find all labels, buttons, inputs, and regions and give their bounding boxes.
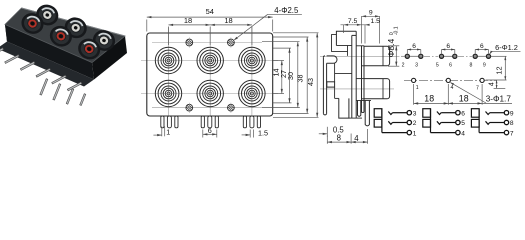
svg-text:18: 18 [224, 16, 232, 25]
pcb top row holes pins 2 3 5 6 8 9 [405, 54, 409, 58]
dim 54 top [146, 20, 148, 32]
dim 18 18 top [168, 27, 170, 46]
lug row2 [327, 82, 335, 87]
svg-text:8: 8 [337, 134, 341, 143]
svg-text:6: 6 [449, 63, 452, 69]
terminal pin 7 [504, 130, 514, 137]
centerlines front view [168, 28, 170, 123]
4 mounting holes with hatch [186, 39, 193, 46]
svg-text:38: 38 [296, 75, 305, 83]
svg-text:6: 6 [208, 126, 212, 135]
wire switch to pin 9 [490, 112, 505, 114]
svg-text:4: 4 [488, 82, 495, 86]
dim 1.5 pin group3 [249, 130, 251, 138]
dia 8.4 dim [388, 45, 399, 47]
svg-text:43: 43 [306, 78, 315, 86]
right nested vertical dims 14 27 30 38 43 [273, 60, 284, 62]
dims 18 18 bottom with 3-phi1.7 [413, 84, 415, 105]
barrel row2 [364, 79, 390, 99]
side pins [358, 101, 361, 117]
bottom foot [339, 98, 349, 118]
svg-text:5: 5 [461, 120, 465, 127]
svg-text:1: 1 [416, 85, 419, 91]
svg-text:6: 6 [446, 43, 450, 50]
pins below front view [161, 116, 164, 128]
switch contact S9 (tip of J3) [486, 112, 490, 115]
svg-text:9: 9 [483, 63, 486, 69]
step between barrels [335, 72, 352, 74]
svg-text:4: 4 [461, 130, 465, 137]
svg-text:1.5: 1.5 [370, 18, 380, 25]
svg-text:4: 4 [450, 85, 453, 91]
terminal pin 8 [504, 120, 514, 127]
terminal pin 1 [407, 130, 417, 137]
side view body outline [336, 31, 356, 45]
svg-text:1: 1 [413, 130, 417, 137]
side dim 0.5 [326, 127, 328, 137]
svg-text:3-Φ1.7: 3-Φ1.7 [486, 95, 512, 104]
svg-text:6: 6 [412, 43, 416, 50]
svg-text:9: 9 [510, 110, 514, 117]
face plate [351, 35, 353, 118]
photo of 6-way RCA jack block [0, 1, 127, 105]
svg-text:7: 7 [476, 85, 479, 91]
svg-text:30: 30 [286, 72, 295, 80]
svg-text:18: 18 [459, 94, 469, 104]
jack J1 body symbol [374, 109, 382, 133]
svg-text:18: 18 [184, 16, 192, 25]
svg-text:-0.1: -0.1 [394, 26, 400, 35]
svg-text:54: 54 [206, 7, 214, 16]
wire switch to pin 2 [393, 122, 408, 124]
terminal pin 6 [456, 110, 466, 117]
pcb layout centerlines [401, 55, 405, 57]
svg-text:18: 18 [424, 94, 434, 104]
switch contact S2 (ring of J1) [388, 121, 392, 124]
svg-text:9: 9 [369, 10, 373, 17]
svg-text:6: 6 [480, 43, 484, 50]
terminal pin 2 [407, 120, 417, 127]
svg-text:2: 2 [413, 120, 417, 127]
svg-text:8: 8 [470, 63, 473, 69]
side bottom dims 8 and 4 [326, 136, 328, 144]
wire switch to pin 3 [393, 112, 408, 114]
svg-text:4-Φ2.5: 4-Φ2.5 [274, 6, 299, 15]
svg-text:7.5: 7.5 [348, 18, 358, 25]
terminal pin 4 [456, 130, 466, 137]
svg-text:Φ8.4: Φ8.4 [386, 38, 396, 57]
svg-text:7: 7 [510, 130, 514, 137]
dims 6 6 6 top [406, 50, 408, 54]
leader 3-phi1.7 to hole 4 [451, 83, 487, 103]
wire jack J1 ground to pin 1 [382, 132, 407, 134]
switch contact S3 (tip of J1) [388, 112, 392, 115]
front body rectangle [147, 33, 273, 116]
jack J3 body symbol [471, 109, 479, 133]
wire switch to pin 5 [441, 122, 456, 124]
svg-text:8: 8 [510, 120, 514, 127]
dim 6 pin group2 [202, 130, 204, 138]
svg-text:1.5: 1.5 [258, 128, 268, 137]
svg-text:5: 5 [436, 63, 439, 69]
rear plate [361, 46, 363, 113]
barrel row1 [364, 46, 390, 66]
terminal pin 9 [504, 110, 514, 117]
svg-text:3: 3 [413, 110, 417, 117]
pcb bottom row holes pins 1 4 7 [412, 78, 416, 82]
svg-text:6-Φ1.2: 6-Φ1.2 [495, 43, 518, 52]
terminal pin 3 [407, 110, 417, 117]
side view centerlines [320, 55, 400, 57]
wire switch to pin 6 [441, 112, 456, 114]
jack J2 body symbol [423, 109, 431, 133]
switch contact S5 (ring of J2) [437, 121, 441, 124]
svg-text:3: 3 [415, 63, 418, 69]
side dims 7.5 and 1.5 [343, 25, 345, 33]
svg-text:4: 4 [354, 134, 359, 143]
terminal pin 5 [456, 120, 466, 127]
dim 1 pin width group1 [161, 127, 163, 137]
wire jack J2 ground to pin 4 [431, 132, 456, 134]
svg-text:2: 2 [402, 63, 405, 69]
wire jack J3 ground to pin 7 [479, 132, 504, 134]
side dim 9 [361, 16, 363, 43]
svg-text:12: 12 [494, 66, 503, 74]
six RCA jack circles [155, 47, 181, 73]
switch contact S6 (tip of J2) [437, 112, 441, 115]
dims 12 and 4 right [491, 55, 507, 57]
svg-text:1: 1 [166, 128, 170, 137]
wire switch to pin 8 [490, 122, 505, 124]
svg-text:6: 6 [461, 110, 465, 117]
switch contact S8 (ring of J3) [486, 121, 490, 124]
